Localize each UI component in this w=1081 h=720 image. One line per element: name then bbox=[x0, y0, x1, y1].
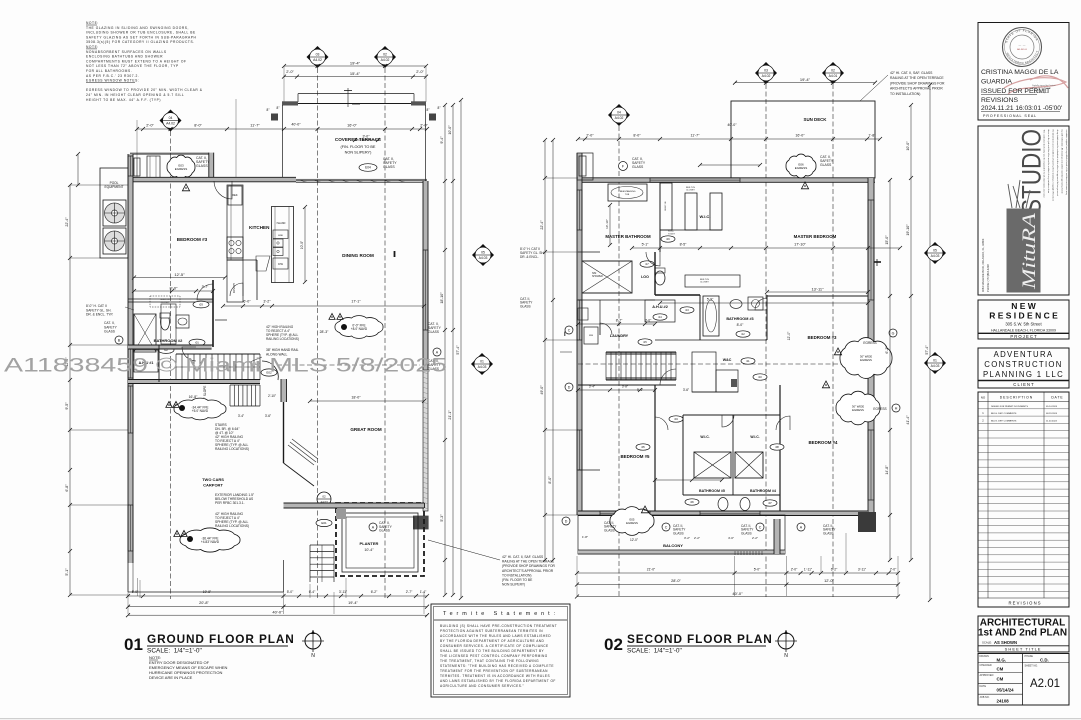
svg-text:5'-3": 5'-3" bbox=[440, 514, 444, 522]
svg-text:+4.83' NAVD: +4.83' NAVD bbox=[201, 540, 220, 544]
svg-text:NON SLIPERY): NON SLIPERY) bbox=[345, 151, 372, 155]
svg-text:A4.02: A4.02 bbox=[381, 58, 390, 62]
svg-text:D: D bbox=[565, 520, 568, 524]
svg-text:2'-2": 2'-2" bbox=[752, 536, 758, 540]
svg-text:11.20.2024: 11.20.2024 bbox=[1046, 421, 1058, 423]
svg-text:+5.0' NAVD: +5.0' NAVD bbox=[192, 409, 209, 413]
svg-text:02: 02 bbox=[831, 69, 835, 73]
svg-text:EGRESS: EGRESS bbox=[860, 358, 872, 362]
svg-text:5'-0": 5'-0" bbox=[754, 568, 761, 572]
svg-text:A4.03: A4.03 bbox=[479, 256, 488, 260]
svg-text:(FIN. FLOOR TO BE: (FIN. FLOOR TO BE bbox=[502, 578, 533, 582]
svg-text:08.19.2024: 08.19.2024 bbox=[1046, 413, 1058, 415]
svg-text:EQUIPMENT: EQUIPMENT bbox=[105, 185, 124, 189]
svg-text:A4.02: A4.02 bbox=[762, 74, 771, 78]
svg-text:GLASS: GLASS bbox=[196, 164, 208, 168]
svg-text:BATHROOM #2: BATHROOM #2 bbox=[154, 338, 184, 343]
svg-text:A4.02: A4.02 bbox=[166, 122, 175, 126]
svg-text:SCALE:: SCALE: bbox=[982, 641, 992, 645]
svg-text:2'-0": 2'-0" bbox=[420, 124, 428, 128]
svg-text:SUN DECK: SUN DECK bbox=[804, 117, 828, 122]
svg-text:14'-8": 14'-8" bbox=[885, 465, 889, 475]
svg-text:+8.0' NAVD: +8.0' NAVD bbox=[351, 327, 368, 331]
svg-text:57'-4": 57'-4" bbox=[456, 345, 460, 355]
svg-text:A4.01: A4.01 bbox=[829, 74, 838, 78]
svg-text:MituRA: MituRA bbox=[1019, 213, 1040, 291]
svg-text:2'-0": 2'-0" bbox=[890, 568, 897, 572]
svg-text:i15: i15 bbox=[643, 340, 647, 344]
svg-text:CM: CM bbox=[997, 667, 1004, 672]
svg-text:i07: i07 bbox=[768, 501, 772, 505]
svg-text:CHECKED: CHECKED bbox=[980, 664, 992, 667]
svg-text:4'-0": 4'-0" bbox=[728, 536, 734, 540]
svg-text:A4.02: A4.02 bbox=[615, 116, 624, 120]
svg-text:2'-0": 2'-0" bbox=[286, 70, 294, 74]
svg-text:3'-6": 3'-6" bbox=[683, 388, 689, 392]
svg-text:10'-4": 10'-4" bbox=[364, 548, 374, 552]
svg-text:HALLANDALE BEACH, FLORIDA 3300: HALLANDALE BEACH, FLORIDA 33009 bbox=[991, 329, 1056, 333]
svg-text:5'-0": 5'-0" bbox=[287, 590, 294, 594]
svg-text:N E W: N E W bbox=[1011, 301, 1037, 311]
svg-text:GLASS: GLASS bbox=[741, 531, 752, 535]
svg-text:BEDROOM #3: BEDROOM #3 bbox=[807, 335, 837, 340]
svg-text:15'-4": 15'-4" bbox=[350, 71, 361, 76]
svg-text:GLASS: GLASS bbox=[383, 165, 395, 169]
svg-text:3'-2": 3'-2" bbox=[684, 536, 690, 540]
svg-text:3'-4": 3'-4" bbox=[589, 385, 595, 389]
svg-text:INCLUDING SHOWER OR TUB ENCLOS: INCLUDING SHOWER OR TUB ENCLOSURE, SHALL… bbox=[86, 31, 196, 35]
svg-text:28'-0": 28'-0" bbox=[671, 579, 681, 583]
svg-text:41'-4": 41'-4" bbox=[906, 415, 910, 425]
svg-text:SHEET NO.: SHEET NO. bbox=[1025, 665, 1039, 668]
svg-text:REF.: REF. bbox=[232, 193, 238, 197]
svg-text:05/14/24: 05/14/24 bbox=[997, 688, 1015, 693]
svg-text:6'-0": 6'-0" bbox=[243, 300, 251, 304]
svg-text:D E S C R I P T I O N: D E S C R I P T I O N bbox=[1000, 396, 1033, 400]
svg-text:9'-5": 9'-5" bbox=[65, 402, 69, 410]
svg-text:AS SHOWN: AS SHOWN bbox=[994, 640, 1017, 645]
svg-text:D/W: D/W bbox=[278, 263, 283, 266]
svg-text:EGRESS: EGRESS bbox=[795, 166, 808, 170]
svg-text:GLASS: GLASS bbox=[823, 531, 834, 535]
svg-text:i05: i05 bbox=[641, 445, 645, 449]
svg-text:BATHROOM #4: BATHROOM #4 bbox=[750, 489, 776, 493]
svg-text:— · —: — · — bbox=[1019, 44, 1027, 47]
svg-text:BATHROOM #5: BATHROOM #5 bbox=[699, 489, 725, 493]
svg-text:BUILT-IN: BUILT-IN bbox=[665, 201, 667, 210]
svg-text:RAILING AT THE OPEN TERRACE: RAILING AT THE OPEN TERRACE bbox=[890, 76, 944, 80]
svg-text:(PROVIDE SHOP DRAWINGS FOR: (PROVIDE SHOP DRAWINGS FOR bbox=[502, 564, 556, 568]
svg-text:42" HI. CAT. II, SAF. GLASS: 42" HI. CAT. II, SAF. GLASS bbox=[890, 71, 933, 75]
svg-text:i12: i12 bbox=[741, 332, 745, 336]
svg-text:1'-4": 1'-4" bbox=[420, 590, 427, 594]
svg-text:6'-4": 6'-4" bbox=[309, 590, 316, 594]
svg-text:11'-7": 11'-7" bbox=[250, 124, 260, 128]
svg-text:11'-7": 11'-7" bbox=[691, 134, 701, 138]
svg-text:NOTE:: NOTE: bbox=[86, 21, 99, 25]
svg-text:6'-8": 6'-8" bbox=[65, 484, 69, 492]
svg-text:01: 01 bbox=[933, 359, 937, 363]
svg-text:16'-0": 16'-0" bbox=[347, 124, 357, 128]
svg-text:05: 05 bbox=[481, 251, 485, 255]
svg-text:1'-11": 1'-11" bbox=[804, 568, 813, 572]
svg-text:C: C bbox=[568, 329, 571, 333]
svg-text:12'-0": 12'-0" bbox=[787, 331, 791, 340]
svg-text:P R O F E S S I O N A L S E: P R O F E S S I O N A L S E A L bbox=[983, 114, 1036, 118]
svg-text:8": 8" bbox=[427, 108, 430, 112]
svg-text:i04: i04 bbox=[674, 417, 678, 421]
svg-text:ENCLOSING BATHTUBS AND SHOWER: ENCLOSING BATHTUBS AND SHOWER bbox=[86, 55, 163, 59]
svg-text:AGRICULTURE AND CONSUMER SERVI: AGRICULTURE AND CONSUMER SERVICES." bbox=[440, 684, 524, 688]
svg-text:12'-0": 12'-0" bbox=[630, 538, 638, 542]
svg-text:W.I.C.: W.I.C. bbox=[700, 435, 709, 439]
svg-text:TO INSTALLATION): TO INSTALLATION) bbox=[502, 573, 532, 577]
svg-text:42" HI. CAT. II, SAF. GLASS: 42" HI. CAT. II, SAF. GLASS bbox=[502, 555, 544, 559]
svg-text:shop details must be submitted: shop details must be submitted to this o… bbox=[1056, 130, 1059, 197]
svg-text:i06: i06 bbox=[690, 500, 694, 504]
svg-text:ACCORDANCE WITH THE RULES AND: ACCORDANCE WITH THE RULES AND LAWS ESTAB… bbox=[440, 634, 551, 638]
svg-text:BY THE FLORIDA DEPARTMENT OF A: BY THE FLORIDA DEPARTMENT OF AGRICULTURE… bbox=[440, 639, 545, 643]
svg-text:3'-0": 3'-0" bbox=[645, 319, 652, 323]
svg-text:PLANTER: PLANTER bbox=[360, 541, 379, 546]
svg-text:G: G bbox=[892, 332, 895, 336]
svg-text:i10: i10 bbox=[758, 375, 762, 379]
svg-text:8'-0": 8'-0" bbox=[737, 323, 745, 327]
svg-text:WM: WM bbox=[589, 335, 593, 337]
svg-text:49'-0": 49'-0" bbox=[540, 385, 544, 395]
svg-text:APPROVED: APPROVED bbox=[980, 674, 994, 677]
svg-text:1'-8": 1'-8" bbox=[868, 134, 876, 138]
svg-text:10'-10": 10'-10" bbox=[605, 219, 609, 229]
svg-text:1st AND 2nd PLAN: 1st AND 2nd PLAN bbox=[978, 628, 1067, 639]
svg-text:itions on the job and this off: itions on the job and this office must b… bbox=[1047, 130, 1050, 194]
svg-text:CRISTINA MAGGI DE LA: CRISTINA MAGGI DE LA bbox=[981, 69, 1059, 76]
svg-text:40'-0": 40'-0" bbox=[272, 610, 283, 615]
svg-text:ADVENTURA: ADVENTURA bbox=[994, 350, 1054, 359]
svg-text:05.14.2024: 05.14.2024 bbox=[1046, 406, 1058, 408]
svg-text:A4.03: A4.03 bbox=[478, 365, 487, 369]
svg-text:W.I.C.: W.I.C. bbox=[750, 435, 759, 439]
svg-text:19'-4": 19'-4" bbox=[800, 77, 811, 82]
svg-text:8'-0": 8'-0" bbox=[548, 476, 552, 484]
svg-text:SECOND FLOOR PLAN: SECOND FLOOR PLAN bbox=[627, 632, 773, 646]
svg-text:A.H.U.#2: A.H.U.#2 bbox=[652, 305, 668, 309]
svg-text:COMPARTMENTS MUST EXTEND TO A: COMPARTMENTS MUST EXTEND TO A HEIGHT OF bbox=[86, 59, 187, 63]
svg-text:TWO CARS: TWO CARS bbox=[202, 477, 224, 482]
svg-text:i14: i14 bbox=[658, 315, 662, 319]
svg-text:BATHROOM #3: BATHROOM #3 bbox=[726, 317, 753, 321]
svg-text:2'-0": 2'-0" bbox=[416, 70, 424, 74]
svg-text:PROTECTION AGAINST SUBTERRANEA: PROTECTION AGAINST SUBTERRANEAN TERMITES… bbox=[440, 629, 543, 633]
svg-text:CONSTRUCTION: CONSTRUCTION bbox=[984, 360, 1062, 369]
svg-text:LAUNDRY: LAUNDRY bbox=[610, 334, 629, 338]
svg-text:PHONE: (757)816-4238: PHONE: (757)816-4238 bbox=[986, 264, 990, 292]
svg-text:EGRESS: EGRESS bbox=[873, 407, 886, 411]
svg-text:18'-0": 18'-0" bbox=[351, 396, 361, 400]
svg-text:01: 01 bbox=[480, 360, 484, 364]
svg-text:22'-4": 22'-4" bbox=[540, 220, 544, 230]
svg-text:DATE: DATE bbox=[980, 685, 987, 688]
svg-text:3'-11": 3'-11" bbox=[858, 568, 867, 572]
svg-text:ISLAND: ISLAND bbox=[277, 222, 286, 225]
svg-text:2'-2": 2'-2" bbox=[694, 536, 700, 540]
svg-text:DINING ROOM: DINING ROOM bbox=[342, 253, 374, 258]
svg-text:3'-4": 3'-4" bbox=[238, 414, 244, 418]
svg-text:TERMITES. TREATMENT IS IN ACCO: TERMITES. TREATMENT IS IN ACCORDANCE WIT… bbox=[440, 674, 550, 678]
svg-text:38" HIGH HAND RAIL: 38" HIGH HAND RAIL bbox=[266, 348, 299, 352]
svg-text:CONSUMER SERVICES. A CERTIFICA: CONSUMER SERVICES. A CERTIFICATE OF COMP… bbox=[440, 644, 549, 648]
svg-text:i16: i16 bbox=[666, 237, 670, 241]
svg-text:5'-9": 5'-9" bbox=[707, 298, 714, 302]
svg-text:TO INSTALLATION): TO INSTALLATION) bbox=[890, 92, 920, 96]
svg-text:05: 05 bbox=[933, 249, 937, 253]
svg-text:A4.03: A4.03 bbox=[931, 364, 940, 368]
svg-text:ing with fabrication. All draw: ing with fabrication. All drawings and w… bbox=[1061, 130, 1064, 195]
svg-text:REVISIONS: REVISIONS bbox=[981, 97, 1018, 104]
svg-text:A4.02: A4.02 bbox=[313, 58, 322, 62]
svg-text:DR. & ENCL. TYP.: DR. & ENCL. TYP. bbox=[86, 313, 113, 317]
svg-text:6'-2": 6'-2" bbox=[371, 590, 378, 594]
svg-text:THE GLAZING IN SLIDING AND SWI: THE GLAZING IN SLIDING AND SWINGING DOOR… bbox=[86, 26, 189, 30]
svg-text:9'-4": 9'-4" bbox=[440, 136, 444, 144]
svg-text:21'-0": 21'-0" bbox=[647, 568, 656, 572]
svg-text:DEVICE ARE IN PLACE: DEVICE ARE IN PLACE bbox=[149, 675, 193, 680]
svg-text:SAFETY GLAZING AS SET FORTH IN: SAFETY GLAZING AS SET FORTH IN SUB-PARAG… bbox=[86, 35, 196, 39]
svg-text:GUARDIA: GUARDIA bbox=[981, 79, 1012, 86]
svg-text:5'-0": 5'-0" bbox=[132, 590, 139, 594]
svg-text:12'-5": 12'-5" bbox=[174, 272, 185, 277]
svg-text:SINK: SINK bbox=[278, 235, 284, 237]
svg-text:BUILDING (S) SHALL HAVE PRE-CO: BUILDING (S) SHALL HAVE PRE-CONSTRUCTION… bbox=[440, 624, 557, 628]
svg-text:40'-0": 40'-0" bbox=[727, 123, 737, 127]
svg-text:RAILING LOCATIONS): RAILING LOCATIONS) bbox=[215, 524, 249, 528]
svg-text:RAILING LOCATIONS): RAILING LOCATIONS) bbox=[266, 337, 299, 341]
svg-text:TUB: TUB bbox=[625, 194, 630, 196]
svg-text:THE TREATMENT, THAT CONTAINS T: THE TREATMENT, THAT CONTAINS THE FOLLOWI… bbox=[440, 659, 539, 663]
svg-text:GLASS: GLASS bbox=[520, 304, 531, 308]
svg-text:BLDG. DEP. COMMENTS: BLDG. DEP. COMMENTS bbox=[991, 421, 1017, 423]
svg-text:GLASS: GLASS bbox=[820, 163, 832, 167]
svg-text:19'-8": 19'-8" bbox=[203, 590, 212, 594]
svg-text:D A T E: D A T E bbox=[1051, 396, 1063, 400]
svg-text:10'-0": 10'-0" bbox=[906, 141, 910, 151]
svg-text:BALCONY: BALCONY bbox=[663, 543, 683, 548]
svg-text:SCALE: 1/4"=1'-0": SCALE: 1/4"=1'-0" bbox=[147, 648, 203, 655]
svg-text:authorized copies: authorized copies bbox=[1032, 91, 1048, 94]
svg-text:21'-1": 21'-1" bbox=[448, 410, 452, 420]
svg-text:i17: i17 bbox=[645, 262, 649, 266]
svg-text:S H E E T T I T L E: S H E E T T I T L E bbox=[1005, 647, 1041, 652]
svg-text:3508.3(s)(5) FOR CATEGORY II G: 3508.3(s)(5) FOR CATEGORY II GLAZING PRO… bbox=[86, 40, 195, 44]
svg-text:10'-0": 10'-0" bbox=[448, 125, 452, 135]
svg-text:EGRESS: EGRESS bbox=[175, 167, 188, 171]
svg-text:BEDROOM #3: BEDROOM #3 bbox=[177, 237, 208, 242]
svg-text:C: C bbox=[759, 526, 762, 530]
svg-text:COVERED TERRACE: COVERED TERRACE bbox=[335, 137, 381, 142]
svg-text:10'-0": 10'-0" bbox=[300, 240, 304, 249]
svg-text:i13: i13 bbox=[685, 308, 689, 312]
svg-text:THE LICENSED PEST CONTROL COMP: THE LICENSED PEST CONTROL COMPANY PERFOR… bbox=[440, 654, 548, 658]
svg-text:i11: i11 bbox=[746, 359, 750, 363]
svg-text:N: N bbox=[311, 653, 315, 659]
svg-text:22'-4": 22'-4" bbox=[65, 217, 69, 227]
svg-text:CLOSET: CLOSET bbox=[700, 282, 709, 284]
svg-text:NOTE:: NOTE: bbox=[86, 45, 99, 49]
svg-text:KITCHEN: KITCHEN bbox=[249, 225, 270, 230]
svg-text:3'-11": 3'-11" bbox=[339, 590, 348, 594]
svg-text:EGRESS: EGRESS bbox=[626, 521, 638, 525]
svg-text:8": 8" bbox=[438, 106, 441, 110]
svg-text:01: 01 bbox=[124, 635, 143, 654]
svg-text:TOILET: TOILET bbox=[668, 233, 676, 235]
svg-text:40'-0": 40'-0" bbox=[732, 591, 743, 596]
svg-text:18'-10": 18'-10" bbox=[440, 292, 444, 304]
svg-text:4064 MAGUIRE BLVD, ORLANDO, FL: 4064 MAGUIRE BLVD, ORLANDO, FL, 32803 bbox=[981, 238, 985, 292]
svg-text:M.G.: M.G. bbox=[997, 658, 1007, 663]
svg-text:CLOSET: CLOSET bbox=[686, 190, 695, 192]
svg-text:8'-7": 8'-7" bbox=[616, 319, 623, 323]
svg-text:GLASS: GLASS bbox=[604, 528, 615, 532]
svg-text:19'-10": 19'-10" bbox=[906, 224, 910, 236]
svg-text:5'-1": 5'-1" bbox=[65, 568, 69, 576]
svg-text:MASTER BEDROOM: MASTER BEDROOM bbox=[794, 234, 837, 239]
svg-text:17'-1": 17'-1" bbox=[351, 300, 361, 304]
svg-text:CARPORT: CARPORT bbox=[203, 483, 223, 488]
svg-text:AR-94100: AR-94100 bbox=[1017, 48, 1028, 51]
svg-text:MASTER BATHROOM: MASTER BATHROOM bbox=[605, 234, 651, 239]
svg-text:19'-4": 19'-4" bbox=[350, 61, 361, 66]
svg-text:W&C: W&C bbox=[723, 358, 732, 362]
svg-text:NONABSORBENT SURFACES ON WALLS: NONABSORBENT SURFACES ON WALLS bbox=[86, 50, 167, 54]
svg-text:EGRESS: EGRESS bbox=[852, 408, 864, 412]
svg-text:2024.11.21 16:03:01 -05'00': 2024.11.21 16:03:01 -05'00' bbox=[981, 105, 1062, 112]
svg-text:3'-2": 3'-2" bbox=[263, 300, 271, 304]
svg-text:FOR ALL BATHROOMS.: FOR ALL BATHROOMS. bbox=[86, 69, 132, 73]
svg-text:C L I E N T: C L I E N T bbox=[1013, 382, 1034, 387]
svg-text:NOT LESS THAN 72" ABOVE THE FL: NOT LESS THAN 72" ABOVE THE FLOOR, TYP bbox=[86, 64, 179, 68]
svg-text:20'-8": 20'-8" bbox=[199, 601, 209, 605]
svg-text:C.D.: C.D. bbox=[1040, 658, 1049, 663]
svg-text:AND LAWS ESTABLISHED BY THE FL: AND LAWS ESTABLISHED BY THE FLORIDA DEPA… bbox=[440, 679, 556, 683]
svg-text:24" MIN. IN HEIGHT CLEAR OPENI: 24" MIN. IN HEIGHT CLEAR OPENING & 5.7 S… bbox=[86, 93, 184, 97]
svg-text:SCALE: 1/4"=1'-0": SCALE: 1/4"=1'-0" bbox=[627, 648, 683, 655]
svg-text:305 S.W. 5th Street: 305 S.W. 5th Street bbox=[1005, 322, 1042, 327]
svg-text:15'-0": 15'-0" bbox=[885, 235, 889, 245]
svg-text:NON SLIPERY): NON SLIPERY) bbox=[502, 583, 525, 587]
svg-text:2'-0": 2'-0" bbox=[791, 568, 798, 572]
svg-text:16'-0": 16'-0" bbox=[795, 134, 805, 138]
svg-text:2" SLOPE: 2" SLOPE bbox=[203, 386, 207, 400]
svg-text:6'-2": 6'-2" bbox=[885, 346, 889, 354]
svg-text:8'-0": 8'-0" bbox=[170, 286, 179, 291]
svg-text:STUDIO: STUDIO bbox=[1017, 129, 1047, 214]
svg-text:ISSUED FOR PERMIT DOCUMENTS: ISSUED FOR PERMIT DOCUMENTS bbox=[991, 406, 1028, 408]
svg-text:FREESTANDING: FREESTANDING bbox=[619, 190, 636, 193]
svg-text:BEDROOM #4: BEDROOM #4 bbox=[808, 440, 838, 445]
svg-text:GLASS: GLASS bbox=[428, 330, 440, 334]
svg-text:GROUND FLOOR PLAN: GROUND FLOOR PLAN bbox=[147, 632, 295, 646]
svg-text:EGRESS WINDOW NOTES:: EGRESS WINDOW NOTES: bbox=[86, 79, 139, 83]
svg-text:BEDROOM #5: BEDROOM #5 bbox=[620, 454, 650, 459]
svg-text:STATEMENTS: "THE BUILDING HAS: STATEMENTS: "THE BUILDING HAS RECEIVED A… bbox=[440, 664, 554, 668]
svg-text:i08: i08 bbox=[775, 445, 779, 449]
svg-text:04: 04 bbox=[169, 116, 173, 120]
svg-text:24108: 24108 bbox=[997, 698, 1010, 703]
svg-text:DRAWN: DRAWN bbox=[980, 655, 990, 658]
svg-text:TREATMENT FOR THE PREVENTION O: TREATMENT FOR THE PREVENTION OF SUBTERRA… bbox=[440, 669, 548, 673]
svg-text:SHOWER: SHOWER bbox=[592, 275, 603, 278]
svg-text:E01: E01 bbox=[321, 521, 327, 525]
svg-text:02: 02 bbox=[604, 635, 623, 654]
svg-text:2'-0": 2'-0" bbox=[586, 134, 594, 138]
svg-text:PER RFBC 301.3.1.: PER RFBC 301.3.1. bbox=[215, 501, 245, 505]
svg-text:JOB NO.: JOB NO. bbox=[980, 696, 990, 699]
svg-text:R E V I S I O N S: R E V I S I O N S bbox=[1008, 601, 1040, 606]
svg-text:constitute original and unpubl: constitute original and unpublished work… bbox=[1065, 130, 1068, 196]
svg-text:8": 8" bbox=[277, 106, 280, 110]
svg-text:03: 03 bbox=[764, 69, 768, 73]
svg-text:GLASS: GLASS bbox=[379, 529, 391, 533]
svg-text:EGRESS WINDOW TO PROVIDE 20" M: EGRESS WINDOW TO PROVIDE 20" MIN. WIDTH … bbox=[86, 88, 203, 92]
svg-text:02: 02 bbox=[322, 495, 326, 499]
svg-text:LOO: LOO bbox=[641, 275, 649, 279]
svg-text:DR. & ENCL.: DR. & ENCL. bbox=[520, 255, 539, 259]
svg-text:57'-4": 57'-4" bbox=[925, 345, 929, 355]
svg-text:03: 03 bbox=[316, 53, 320, 57]
svg-text:5'-1": 5'-1" bbox=[642, 243, 650, 247]
svg-text:R E S I D E N C E: R E S I D E N C E bbox=[989, 311, 1058, 321]
svg-text:1'-8": 1'-8" bbox=[582, 535, 588, 539]
svg-text:8'-5": 8'-5" bbox=[680, 243, 688, 247]
svg-text:RAILING LOCATIONS): RAILING LOCATIONS) bbox=[215, 447, 249, 451]
svg-text:GLASS: GLASS bbox=[632, 165, 644, 169]
svg-text:02: 02 bbox=[383, 53, 387, 57]
svg-text:04: 04 bbox=[617, 111, 621, 115]
svg-text:RAILING AT THE OPEN TERRACE: RAILING AT THE OPEN TERRACE bbox=[502, 560, 555, 564]
svg-text:8'-0": 8'-0" bbox=[194, 124, 202, 128]
svg-text:A2.01: A2.01 bbox=[1030, 678, 1060, 690]
svg-text:NO: NO bbox=[981, 396, 986, 400]
svg-text:N: N bbox=[784, 653, 788, 659]
svg-text:(FIN. FLOOR TO BE: (FIN. FLOOR TO BE bbox=[341, 145, 376, 149]
svg-text:E04: E04 bbox=[365, 166, 371, 170]
svg-text:19'-4": 19'-4" bbox=[348, 601, 358, 605]
svg-text:PHASE: PHASE bbox=[1025, 655, 1034, 658]
svg-text:GREAT ROOM: GREAT ROOM bbox=[350, 427, 381, 432]
svg-text:8": 8" bbox=[267, 108, 270, 112]
svg-text:ARCHITECT'S APPROVAL PRIOR: ARCHITECT'S APPROVAL PRIOR bbox=[502, 569, 554, 573]
svg-text:W.I.C.: W.I.C. bbox=[700, 214, 711, 219]
svg-text:3'-6": 3'-6" bbox=[265, 414, 271, 418]
svg-text:8'-0": 8'-0" bbox=[633, 134, 641, 138]
svg-text:C: C bbox=[665, 526, 668, 530]
svg-text:2'-0": 2'-0" bbox=[146, 124, 154, 128]
svg-text:BLDG. DEP. COMMENTS: BLDG. DEP. COMMENTS bbox=[991, 413, 1017, 415]
svg-text:SHALL BE ISSUED TO THE BUILDIN: SHALL BE ISSUED TO THE BUILDING DEPARTME… bbox=[440, 649, 545, 653]
svg-text:3'-8": 3'-8" bbox=[622, 385, 628, 389]
svg-text:13'-11": 13'-11" bbox=[811, 287, 824, 292]
svg-text:the dimensions and conditions: the dimensions and conditions shown by t… bbox=[1052, 130, 1055, 202]
svg-text:i03: i03 bbox=[199, 303, 203, 307]
svg-text:AS PER F.B.C.' 23 R307.2.: AS PER F.B.C.' 23 R307.2. bbox=[86, 74, 139, 78]
svg-text:HEIGHT TO BE MAX. 44" A.F.F. (: HEIGHT TO BE MAX. 44" A.F.F. (TYP) bbox=[86, 98, 161, 102]
svg-text:BUILT-IN: BUILT-IN bbox=[161, 299, 170, 301]
svg-text:EGRESS: EGRESS bbox=[863, 341, 876, 345]
svg-text:2'-7": 2'-7" bbox=[406, 590, 413, 594]
svg-text:H: H bbox=[895, 407, 898, 411]
svg-text:6'-2": 6'-2" bbox=[831, 568, 838, 572]
svg-text:40'-0": 40'-0" bbox=[291, 123, 301, 127]
